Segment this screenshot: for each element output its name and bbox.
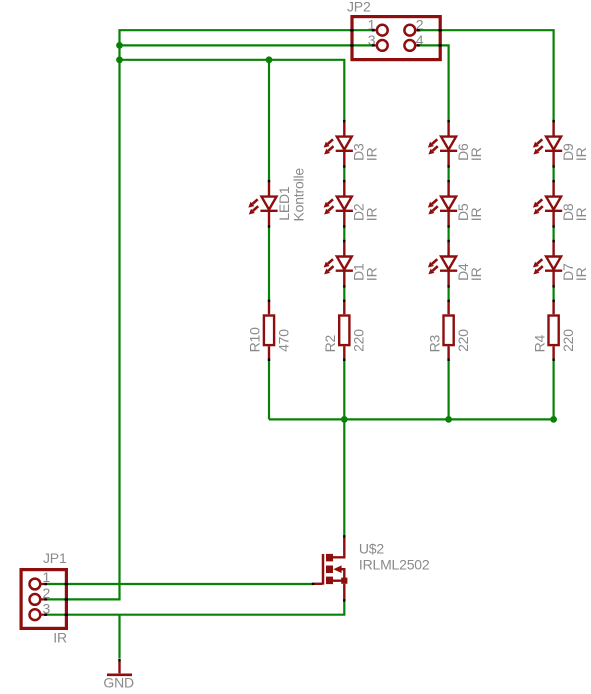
svg-text:Kontrolle: Kontrolle (291, 168, 307, 222)
wire JP2 pin3 row (120, 44, 375, 46)
LED D9 (533, 120, 562, 168)
wire D3-D2 (343, 166, 345, 181)
wire JP2 pin2 to column D9 (417, 30, 554, 121)
tick drain U$2 (343, 535, 345, 537)
svg-text:R2: R2 (322, 334, 338, 352)
wire JP2 pin4 to column D6 (417, 45, 449, 121)
junction R2 column at bus (341, 416, 348, 423)
wire bottom bus (269, 418, 554, 420)
tick JP2 left edge crossings (350, 29, 353, 31)
LED D8 (533, 180, 562, 228)
tick JP1 pin points (44, 583, 47, 585)
svg-text:R4: R4 (531, 334, 547, 352)
LED D4 (428, 240, 457, 288)
svg-text:470: 470 (275, 329, 291, 352)
transistor U$2 MOSFET (314, 537, 348, 600)
resistor R2 (339, 300, 349, 361)
svg-text:R10: R10 (247, 327, 263, 352)
svg-text:IR: IR (573, 147, 589, 161)
wire D2-D1 (343, 227, 345, 242)
LED D2 (324, 180, 353, 228)
wire LED1 column top (268, 60, 270, 181)
svg-text:IRLML2502: IRLML2502 (359, 556, 430, 572)
LED D1 (324, 240, 353, 288)
wire LED1 to R10 (268, 227, 270, 302)
svg-text:IR: IR (468, 208, 484, 222)
wire JP1 pin1 to gate (47, 583, 313, 585)
svg-text:U$2: U$2 (359, 540, 384, 556)
tick GND (118, 659, 120, 661)
resistor R10 (264, 300, 274, 361)
wire rail to LED columns (120, 60, 345, 122)
svg-text:IR: IR (53, 629, 67, 645)
svg-text:IR: IR (364, 208, 380, 222)
connector JP2 (352, 17, 440, 60)
svg-text:IR: IR (573, 267, 589, 281)
LED LED1 (248, 180, 277, 228)
svg-text:220: 220 (560, 329, 576, 352)
junction R4 column at bus (550, 416, 557, 423)
resistor R4 (549, 300, 559, 361)
wire source to JP1 pin3 with GND tap (47, 600, 344, 615)
svg-text:IR: IR (573, 208, 589, 222)
svg-text:JP1: JP1 (43, 550, 67, 566)
wire D6-D5 (448, 166, 450, 181)
wire D9-D8 (552, 166, 554, 181)
tick JP1 box edge crossings (65, 583, 68, 585)
wire net V+ left vertical and to JP1 pin2 (47, 30, 374, 599)
wire R4 to bus (552, 360, 554, 419)
tick source U$2 (343, 599, 345, 601)
wire R3 to bus (448, 360, 450, 419)
LED D3 (324, 120, 353, 168)
tick JP2 pin points (372, 29, 375, 31)
wire D7-R4 (552, 287, 554, 302)
LED D5 (428, 180, 457, 228)
junction at JP2 pin3 row (116, 42, 123, 49)
junction at rail (116, 56, 123, 63)
svg-text:IR: IR (468, 147, 484, 161)
svg-text:IR: IR (468, 267, 484, 281)
wire D8-D7 (552, 227, 554, 242)
LED D6 (428, 120, 457, 168)
wire bus to drain (343, 419, 345, 536)
LED D7 (533, 240, 562, 288)
wire GND drop (118, 615, 120, 659)
tick JP2 right edge crossings (438, 29, 441, 31)
wire R2 to bus (343, 360, 345, 419)
wire R10 to bus (268, 360, 270, 419)
svg-text:220: 220 (455, 329, 471, 352)
resistor R3 (444, 300, 454, 361)
svg-text:1: 1 (43, 569, 51, 585)
wire D5-D4 (448, 227, 450, 242)
connector JP1 (21, 570, 66, 629)
svg-text:IR: IR (364, 147, 380, 161)
svg-text:220: 220 (351, 329, 367, 352)
svg-text:IR: IR (364, 267, 380, 281)
svg-text:GND: GND (103, 675, 134, 691)
ground GND (107, 661, 132, 675)
junction R3 column at bus (445, 416, 452, 423)
wire D4-R3 (448, 287, 450, 302)
wire D1-R2 (343, 287, 345, 302)
svg-text:R3: R3 (426, 334, 442, 352)
junction LED1 column (266, 56, 273, 63)
svg-text:JP2: JP2 (347, 0, 371, 15)
tick gate U$2 (312, 583, 314, 585)
